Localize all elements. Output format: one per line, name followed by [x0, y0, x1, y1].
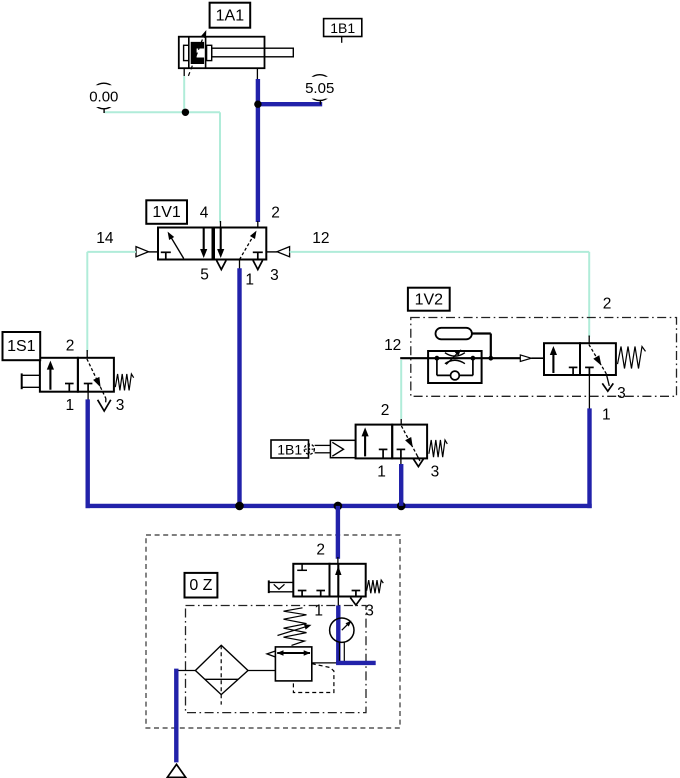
cylinder 1A1 right port stub — [256, 68, 258, 80]
svg-text:3: 3 — [431, 463, 440, 480]
pressure gauge 0.00 — [91, 83, 117, 109]
1V1 right position: port 3 blocked — [253, 251, 263, 253]
wire: cylinder right port to 1V1 port 2 (pressurized) — [256, 79, 260, 222]
svg-text:1A1: 1A1 — [216, 8, 245, 25]
1V2 port 1 stub — [588, 375, 590, 409]
svg-text:2: 2 — [381, 402, 390, 419]
1V2 throttle-check valve box — [428, 351, 482, 383]
svg-text:2: 2 — [603, 295, 612, 312]
svg-text:3: 3 — [116, 397, 125, 414]
label box 1V1 — [146, 200, 187, 224]
node: main line junction at 1B1 port 1 — [397, 502, 406, 511]
1V2 throttle symbol — [445, 353, 465, 356]
1B1 port 2 stub — [400, 418, 402, 426]
svg-text:1V1: 1V1 — [152, 204, 181, 221]
1V2 pilot actuator arrow — [520, 355, 531, 362]
1V2 3/2-way valve — [544, 343, 580, 375]
position marker 1B1 — [324, 19, 362, 37]
0Z filter inlet connection — [176, 670, 195, 672]
svg-text:3: 3 — [270, 267, 279, 284]
svg-text:0.00: 0.00 — [89, 89, 118, 106]
label box 1S1 — [3, 332, 41, 360]
0Z shut-off valve (3/2-way detent) — [293, 564, 329, 597]
1S1 pushbutton actuator — [21, 373, 23, 389]
1V2 throttle adjust arrow — [446, 352, 458, 364]
wire: main supply line (pressurized) — [86, 504, 592, 508]
wire: 1S1 port 1 to main supply line (pressurized) — [85, 399, 89, 508]
valve 1S1 (3/2-way pushbutton valve) — [40, 358, 78, 392]
1V2 check valve — [451, 371, 460, 380]
node: throttle box right junction — [471, 356, 476, 361]
wire: gauge line to 1V1 port 4 (unpressurized) — [105, 111, 221, 113]
wire: 0Z valve port 1 down to regulator outlet (pressurized) — [336, 606, 340, 665]
0Z filter to regulator connection — [248, 670, 275, 672]
wire: 1V1 pilot 12 to 1V2 port 2 (unpressurized) — [290, 251, 590, 253]
0Z valve detent lever actuator — [268, 580, 270, 593]
svg-text:1: 1 — [65, 397, 74, 414]
label box 1B1 (actuating cam reference) — [271, 440, 309, 458]
1V2 check valve bypass — [436, 358, 438, 375]
wire: main line to 0Z valve port 2 (pressurized) — [336, 506, 340, 559]
svg-text:5: 5 — [200, 267, 209, 284]
svg-text:1B1: 1B1 — [277, 442, 302, 458]
svg-text:0 Z: 0 Z — [189, 577, 212, 594]
1V1 right position: flow 1-2 arrow (dashed) — [240, 237, 253, 259]
svg-text:2: 2 — [316, 541, 325, 558]
service unit 0Z outer dashed box — [146, 535, 400, 728]
1S1 port 1 stub — [87, 392, 89, 400]
svg-text:1B1: 1B1 — [330, 20, 355, 36]
1S1 port 2 stub — [86, 350, 88, 358]
label box 1A1 — [210, 3, 251, 28]
wire: supply riser from source (pressurized) — [174, 669, 178, 763]
0Z valve port 1 stub — [337, 597, 339, 607]
timer 1V2 dash-dot enclosure — [411, 318, 677, 397]
wire: cylinder left port down (unpressurized) — [183, 76, 185, 112]
1B1 roller cam actuator — [330, 440, 355, 457]
node: junction on cylinder left line — [182, 109, 189, 116]
valve 1V1 (5/2-way double pilot valve) — [158, 228, 266, 260]
wire: junction to gauge 5.05 — [258, 102, 322, 106]
svg-text:12: 12 — [312, 230, 329, 247]
svg-text:2: 2 — [66, 337, 75, 354]
pressure gauge 5.05 — [307, 75, 333, 101]
1V1 port 2 stub — [257, 221, 259, 228]
svg-text:1V2: 1V2 — [415, 291, 444, 308]
valve 1B1 (3/2-way roller limit valve) — [356, 425, 393, 459]
wire: 0Z outlet stub (pressurized) — [336, 661, 376, 665]
svg-text:1: 1 — [602, 406, 611, 423]
cylinder 1A1 — [179, 37, 293, 68]
svg-text:3: 3 — [617, 385, 626, 402]
cylinder 1A1 stroke arrow (dashed) — [188, 35, 204, 76]
compressed air source — [167, 764, 185, 777]
svg-text:1S1: 1S1 — [7, 338, 36, 355]
1B1 port 1 stub — [400, 458, 402, 465]
svg-text:12: 12 — [384, 337, 401, 354]
svg-text:14: 14 — [96, 230, 114, 247]
1V1 left position: flow 2-3 arrow — [203, 229, 205, 252]
1V1 exhaust port 3 — [253, 260, 263, 269]
node: main line junction at 0Z supply — [334, 502, 343, 511]
wire: 1V2 port 1 to main supply line (pressurized) — [587, 408, 591, 508]
0Z regulator spring — [284, 608, 307, 646]
1V1 left position: flow 1-4 arrow — [169, 234, 184, 258]
1V2 pilot input line 12 — [400, 357, 520, 359]
1V2 reservoir connection — [472, 332, 491, 334]
wire: 1B1 port 2 up to timer input (unpressurized) — [400, 360, 402, 419]
0Z filter — [195, 645, 248, 694]
wire: 1V1 pilot 14 to 1S1 port 2 (unpressurized) — [87, 251, 136, 253]
svg-text:5.05: 5.05 — [305, 80, 334, 97]
1V1 port 4 stub — [220, 221, 222, 228]
1V1 pilot 12 symbol — [277, 247, 290, 257]
0Z regulator outlet line — [312, 662, 337, 664]
svg-text:2: 2 — [271, 205, 280, 222]
1V1 right position: flow 4-5 arrow — [220, 229, 222, 252]
label box 1V2 — [408, 288, 450, 311]
1V1 left position: port 5 blocked — [161, 251, 171, 253]
1V1 port 1 stub — [239, 260, 241, 269]
1V1 exhaust port 5 — [217, 260, 227, 269]
node: reservoir junction — [488, 356, 493, 361]
0Z regulator vent feedback (dashed) — [293, 664, 334, 693]
label box 0Z — [185, 573, 218, 598]
1V1 pilot 14 symbol — [136, 247, 149, 257]
0Z valve port 2 stub — [337, 557, 339, 564]
cylinder 1A1 left port stub — [183, 68, 185, 76]
1V2 port 2 stub — [588, 336, 590, 344]
wire: 1B1 port 1 to main supply line (pressurized) — [399, 464, 403, 506]
1V2 air reservoir — [436, 328, 472, 340]
0Z pressure gauge — [330, 618, 354, 642]
0Z pressure regulator — [275, 647, 311, 681]
node: throttle box left junction — [435, 356, 440, 361]
0Z inner dash-dot box (filter-regulator) — [186, 606, 367, 713]
wire: 1V1 port 1 to main supply line (pressurized) — [237, 268, 241, 506]
svg-text:1: 1 — [377, 463, 386, 480]
node: main line junction at 1V1 port 1 — [235, 502, 244, 511]
svg-text:4: 4 — [200, 205, 209, 222]
svg-text:1: 1 — [245, 272, 254, 289]
